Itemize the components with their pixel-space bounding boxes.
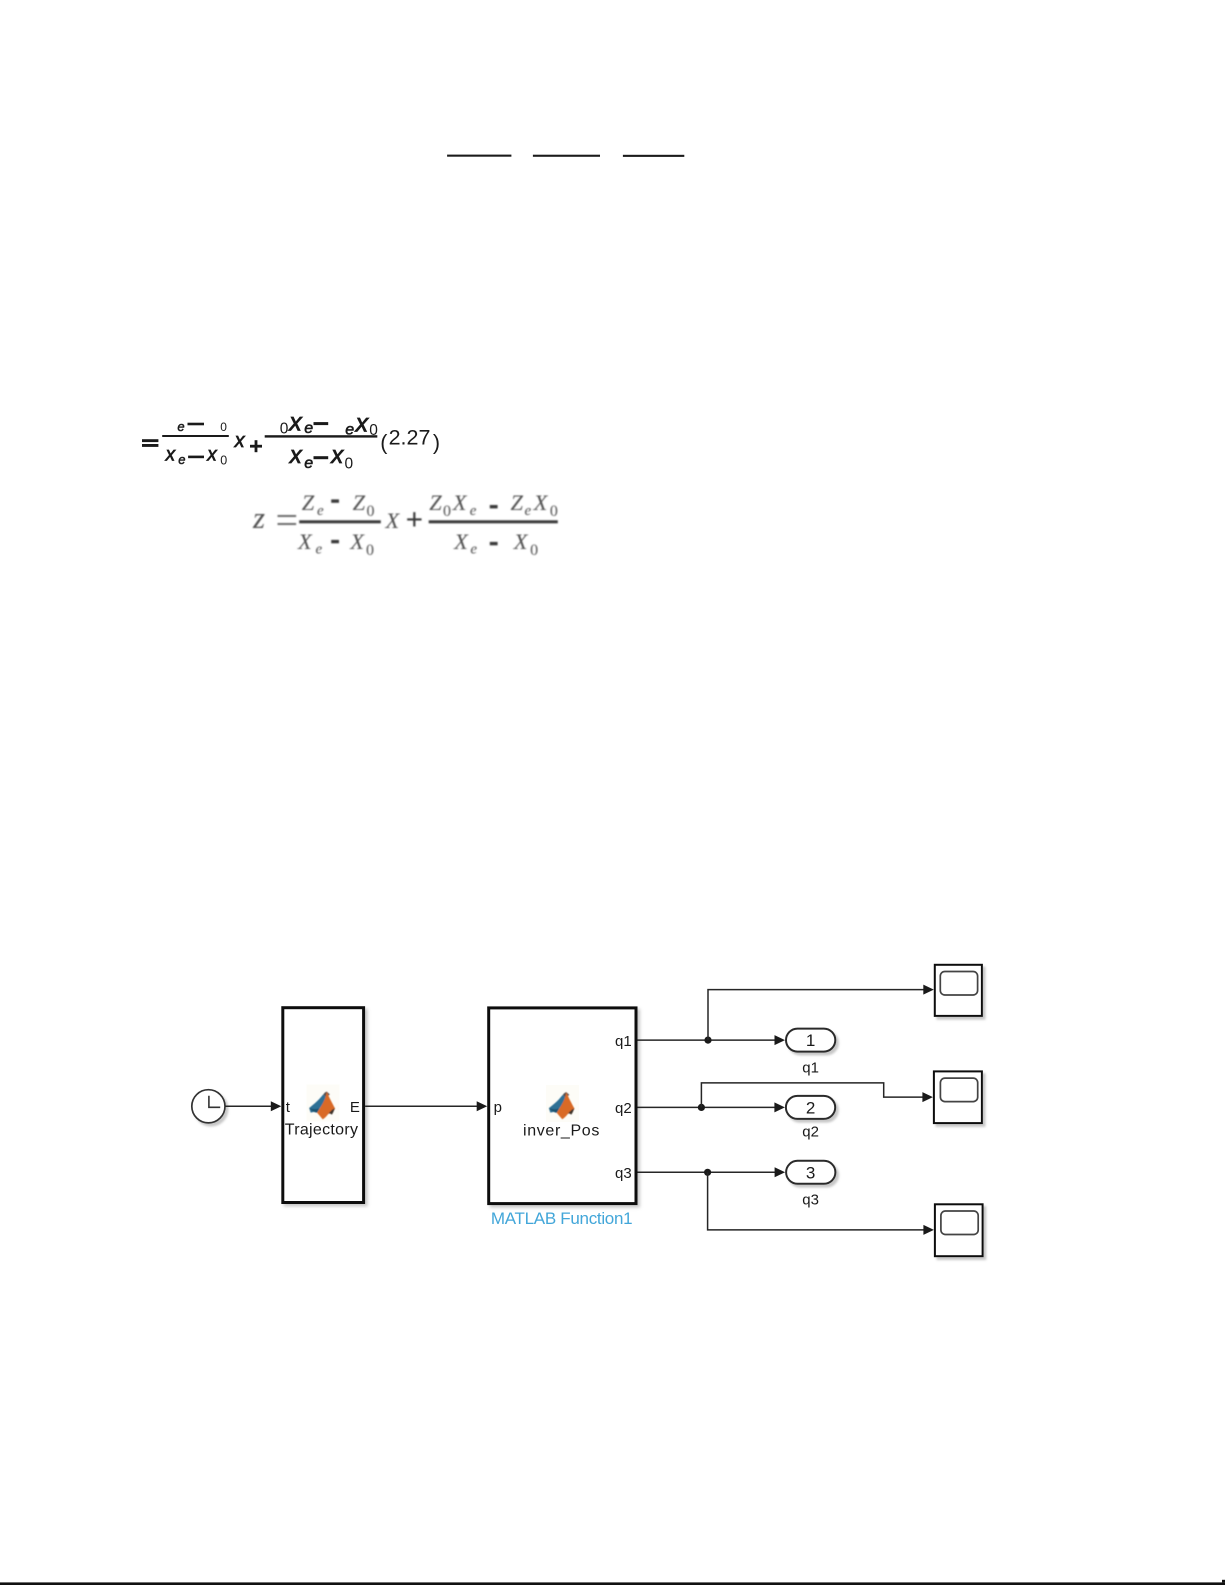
svg-text:0: 0 (367, 503, 375, 520)
svg-text:2.27: 2.27 (389, 426, 431, 450)
svg-text:X: X (385, 508, 401, 533)
scope 1 (935, 965, 982, 1016)
wire q3 branch down to scope3 (708, 1172, 925, 1230)
svg-text:e: e (317, 503, 324, 519)
svg-text:x: x (330, 442, 344, 469)
scope 2 (934, 1071, 982, 1123)
bottom rule right tick (1222, 1580, 1225, 1583)
svg-text:inver_Pos: inver_Pos (523, 1122, 600, 1139)
clock block (192, 1090, 225, 1123)
wire clock to Trajectory (225, 1105, 273, 1107)
equation image gray z = (Ze-Z0)/(Xe-X0) x + (Z0Xe-ZeX0)/(Xe-X0) (252, 490, 558, 559)
svg-text:=: = (276, 497, 299, 542)
junction q3 (704, 1169, 711, 1176)
svg-text:Z: Z (353, 490, 366, 515)
bottom page rule (0, 1582, 1225, 1585)
eq2 fraction2 bar (429, 520, 558, 523)
svg-text:x: x (288, 409, 303, 437)
svg-text:X: X (513, 529, 529, 554)
eq1 fraction1 bar (162, 435, 229, 437)
wire q3 to outport 3 (638, 1171, 777, 1173)
blank underline 2 (533, 155, 600, 157)
svg-text:2: 2 (806, 1098, 815, 1117)
svg-text:x: x (234, 430, 246, 452)
svg-text:0: 0 (280, 421, 289, 438)
equation 2.27 (142, 409, 440, 473)
svg-text:X: X (452, 490, 468, 515)
svg-text:e: e (304, 455, 313, 472)
svg-text:X: X (349, 529, 365, 554)
svg-text:Z: Z (511, 490, 524, 515)
svg-text:q3: q3 (615, 1165, 632, 1182)
svg-text:0: 0 (220, 453, 227, 467)
svg-text:x: x (165, 445, 177, 466)
eq2 fraction1 bar (299, 520, 381, 523)
blank underline 1 (447, 155, 511, 157)
svg-text:z: z (252, 500, 265, 535)
eq1 fraction2 bar (265, 435, 378, 437)
svg-text:0: 0 (530, 542, 538, 559)
wire q1 to outport 1 (638, 1039, 777, 1041)
svg-text:Z: Z (302, 490, 315, 515)
svg-text:+: + (406, 502, 424, 537)
svg-text:MATLAB Function1: MATLAB Function1 (491, 1209, 632, 1228)
wire q1 branch up to scope1 (708, 990, 925, 1041)
matlab icon Trajectory (307, 1085, 340, 1122)
svg-text:e: e (470, 503, 477, 519)
svg-text:3: 3 (806, 1163, 815, 1182)
svg-text:Z: Z (429, 490, 442, 515)
svg-text:e: e (470, 542, 477, 558)
matlab icon inver_Pos (546, 1085, 579, 1122)
svg-text:e: e (525, 503, 532, 519)
svg-text:0: 0 (366, 542, 374, 559)
svg-text:1: 1 (806, 1031, 815, 1050)
svg-text:x: x (289, 442, 303, 469)
svg-text:0: 0 (345, 456, 354, 473)
outport 2 (786, 1096, 835, 1119)
blank underline 3 (623, 155, 684, 157)
svg-text:X: X (453, 529, 469, 554)
svg-text:p: p (494, 1099, 502, 1116)
svg-text:q2: q2 (615, 1100, 632, 1117)
svg-text:q2: q2 (802, 1123, 819, 1140)
outport 1 (786, 1029, 835, 1052)
outport 3 (786, 1161, 835, 1184)
svg-text:q1: q1 (615, 1033, 632, 1050)
block Trajectory (283, 1008, 364, 1203)
eq1 plus (250, 445, 262, 448)
svg-text:0: 0 (443, 503, 451, 520)
wire q2 to outport 2 (638, 1106, 776, 1108)
svg-text:e: e (316, 542, 323, 558)
svg-text:0: 0 (220, 420, 227, 434)
eq1 fraction1 numerator minus (188, 423, 205, 426)
svg-text:X: X (297, 529, 313, 554)
svg-text:e: e (177, 419, 184, 434)
junction q1 (704, 1037, 711, 1044)
svg-text:e: e (178, 452, 185, 467)
block inver_Pos (MATLAB Function1) (489, 1008, 636, 1204)
eq1 equals sign (142, 439, 158, 442)
svg-text:E: E (350, 1099, 360, 1116)
wire Trajectory to inver_Pos (365, 1105, 478, 1107)
svg-text:x: x (355, 409, 370, 437)
svg-text:q1: q1 (802, 1059, 819, 1076)
svg-text:q3: q3 (802, 1191, 819, 1208)
scope 3 (935, 1204, 983, 1256)
svg-text:x: x (206, 445, 218, 466)
wire q2 branch to scope2 (701, 1083, 923, 1108)
svg-text:Trajectory: Trajectory (285, 1122, 359, 1139)
svg-text:0: 0 (550, 503, 558, 520)
svg-text:(: ( (380, 431, 388, 455)
svg-text:X: X (533, 490, 549, 515)
junction q2 (698, 1104, 705, 1111)
svg-text:e: e (304, 420, 313, 437)
svg-text:): ) (433, 431, 440, 455)
